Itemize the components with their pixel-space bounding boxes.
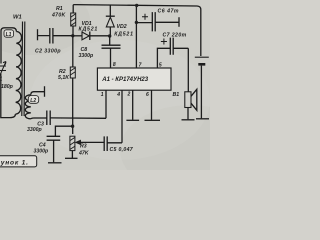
pin 2 wire — [132, 90, 134, 120]
speaker B1 wire bottom — [187, 108, 189, 120]
diode VD1 — [73, 35, 82, 37]
pin 5 wire — [157, 48, 170, 68]
ground pin 2 — [126, 119, 139, 121]
pin 7 wire — [135, 5, 137, 68]
potentiometer R3 wiper arrow — [80, 141, 104, 143]
svg-text:C5 0,047: C5 0,047 — [110, 147, 134, 153]
svg-text:VD2: VD2 — [117, 24, 127, 30]
ground speaker — [182, 119, 195, 121]
svg-text:R3: R3 — [80, 144, 87, 150]
node VD1/VD2/C8 junction dot — [108, 34, 111, 37]
svg-text:R1: R1 — [56, 6, 63, 12]
rail junction dot — [135, 4, 138, 7]
svg-text:унок 1.: унок 1. — [0, 160, 29, 167]
battery GB1 bottom wire — [200, 66, 202, 119]
svg-text:C7 220m: C7 220m — [163, 32, 187, 38]
svg-text:1: 1 — [0, 77, 3, 83]
pin 4 wire — [121, 90, 123, 143]
svg-text:8: 8 — [113, 62, 116, 68]
svg-text:C6 47m: C6 47m — [158, 8, 179, 14]
svg-text:5,1K: 5,1K — [58, 75, 70, 81]
speaker B1 — [185, 92, 191, 108]
coil L1 — [10, 28, 22, 118]
ferrite rod — [22, 22, 25, 117]
resistor R2 — [72, 36, 74, 67]
speaker B1 wire top — [187, 48, 189, 92]
svg-text:47K: 47K — [78, 150, 90, 156]
wire tank left — [1, 28, 5, 64]
svg-text:КД521: КД521 — [79, 27, 99, 33]
svg-text:R2: R2 — [59, 69, 66, 75]
capacitor C7 plus sign — [161, 39, 167, 45]
ground C4 — [48, 162, 62, 164]
svg-text:1: 1 — [101, 92, 104, 98]
wire L2 top with terminal tick — [34, 86, 45, 97]
svg-text:5: 5 — [159, 62, 162, 68]
svg-text:3300p: 3300p — [34, 149, 49, 155]
battery GB1 long plate — [195, 56, 209, 58]
C4 tap junction dot — [71, 125, 74, 128]
scan paper background — [0, 0, 210, 170]
IC A1 box — [97, 68, 171, 90]
potentiometer R3 — [70, 136, 75, 150]
battery GB1 short plate — [198, 63, 205, 66]
capacitor C7 — [170, 38, 188, 55]
svg-text:L1: L1 — [6, 32, 12, 38]
svg-text:4: 4 — [116, 92, 120, 98]
wire C3 to IC pin 1 — [50, 90, 106, 118]
node A junction dot — [71, 34, 74, 37]
svg-text:C2 3300p: C2 3300p — [35, 49, 61, 55]
C6 tap junction dot — [135, 21, 138, 24]
svg-text:6: 6 — [146, 92, 149, 98]
figure caption box — [0, 156, 37, 167]
svg-text:3300p: 3300p — [79, 53, 94, 59]
wire C4 branch — [55, 126, 72, 136]
capacitor C2 terminal tick — [37, 29, 39, 40]
svg-text:7: 7 — [139, 63, 142, 69]
svg-text:C4: C4 — [39, 142, 46, 148]
capacitor C5 — [104, 136, 122, 151]
svg-text:470K: 470K — [51, 13, 67, 19]
pin 6 wire — [151, 90, 153, 120]
svg-text:A1 - КР174УН23: A1 - КР174УН23 — [101, 77, 148, 83]
svg-text:B1: B1 — [173, 92, 180, 98]
capacitor C1 (variable 180p) — [0, 62, 6, 79]
capacitor C4 — [47, 136, 61, 162]
svg-text:3300p: 3300p — [27, 127, 42, 133]
coil L2 — [25, 92, 33, 119]
wire detector vertical R2 to R3 — [72, 78, 74, 134]
ground pin 6 — [145, 119, 161, 121]
coil L1 tag — [4, 30, 14, 37]
capacitor C6 — [136, 12, 179, 31]
capacitor C6 plus sign — [142, 14, 148, 20]
svg-text:180p: 180p — [1, 84, 13, 90]
wire L2 bottom to C3 — [34, 117, 47, 119]
svg-text:W1: W1 — [13, 15, 22, 21]
wire tank top — [5, 27, 13, 29]
power rail wire — [73, 5, 201, 56]
ground battery — [196, 118, 209, 120]
diode VD2 — [109, 5, 111, 16]
svg-text:КД521: КД521 — [114, 32, 134, 38]
capacitor C3 — [47, 111, 50, 126]
resistor R1 — [72, 5, 74, 36]
wire tank bottom-left — [1, 74, 10, 118]
coil L2 tag — [28, 96, 38, 104]
svg-text:L2: L2 — [30, 98, 36, 104]
svg-text:2: 2 — [127, 91, 131, 97]
ground R3 — [65, 157, 78, 159]
capacitor C8 — [102, 36, 121, 68]
capacitor C2 — [38, 28, 73, 44]
